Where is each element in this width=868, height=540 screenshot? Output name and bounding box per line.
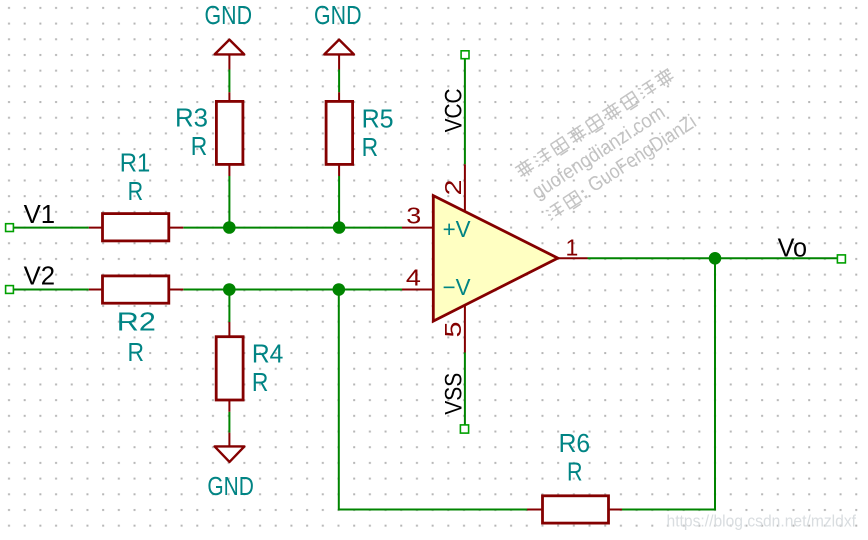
svg-text:+V: +V (443, 216, 472, 242)
svg-text:2: 2 (440, 180, 466, 196)
svg-text:4: 4 (406, 264, 421, 290)
svg-text:1: 1 (566, 234, 579, 260)
svg-text:GND: GND (314, 0, 362, 30)
svg-text:R6: R6 (559, 428, 591, 458)
svg-text:V2: V2 (24, 263, 55, 291)
svg-text:VCC: VCC (440, 88, 467, 132)
svg-text:R: R (128, 176, 144, 206)
svg-text:R: R (127, 337, 144, 367)
svg-text:GND: GND (205, 0, 253, 30)
svg-text:Vo: Vo (778, 234, 808, 262)
svg-text:3: 3 (406, 203, 421, 229)
svg-text:R1: R1 (120, 148, 151, 178)
svg-text:R2: R2 (117, 307, 156, 337)
svg-text:R4: R4 (252, 338, 284, 368)
svg-text:R: R (362, 132, 379, 162)
svg-text:R: R (567, 456, 583, 486)
svg-text:R5: R5 (362, 104, 394, 134)
svg-text:−V: −V (443, 274, 472, 300)
svg-text:R3: R3 (175, 103, 208, 133)
svg-text:V1: V1 (24, 201, 55, 229)
svg-text:R: R (252, 367, 269, 397)
svg-text:VSS: VSS (440, 373, 467, 415)
svg-text:5: 5 (440, 322, 466, 338)
svg-text:https://blog.csdn.net/mzldxf: https://blog.csdn.net/mzldxf (667, 513, 857, 531)
svg-text:GND: GND (207, 471, 254, 501)
svg-text:R: R (191, 131, 208, 161)
